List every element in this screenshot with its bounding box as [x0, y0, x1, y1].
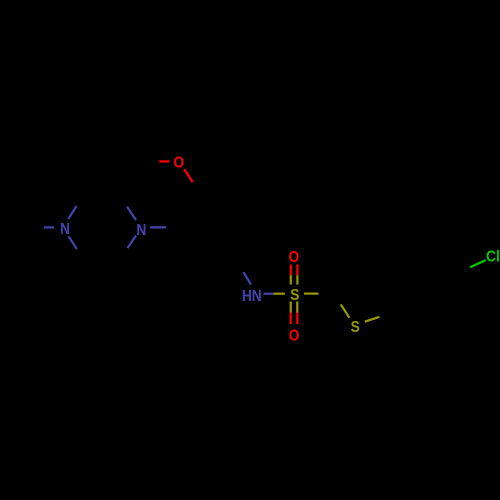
svg-text:O: O	[289, 326, 300, 344]
double bond S=O upper, left line (O half)	[290, 264, 292, 275]
svg-text:N: N	[136, 221, 146, 239]
bond NH-S (S half)	[273, 293, 285, 295]
bond N2-C3(pip) upper-left (N half)	[127, 207, 136, 221]
svg-text:Cl: Cl	[486, 248, 500, 266]
bond N1-C2(pip) upper (N half)	[68, 206, 76, 219]
svg-text:O: O	[173, 154, 184, 172]
double bond S=O upper, right line (O half)	[296, 264, 298, 275]
bond C(aryl)-NH (N half)	[244, 272, 251, 284]
bond S(sulfonyl)-C2(thiophene) (S half)	[304, 293, 319, 295]
bond N1-C6(pip) lower (N half)	[69, 236, 77, 249]
bond NH-S (N half)	[264, 293, 274, 295]
bond N1-CH3 (N half)	[44, 226, 54, 228]
double bond S=O lower, right line (O half)	[296, 313, 298, 325]
bond S1(thiophene)-C7a (S half)	[365, 317, 380, 322]
bond N2-C5(pip) lower-left (N half)	[128, 236, 137, 249]
bond O-C(aryl) (O half)	[184, 169, 193, 182]
double bond S=O upper, left line (S half)	[290, 275, 292, 284]
bond N2-C(aryl) (N half)	[150, 226, 166, 228]
double bond S=O lower, left line (S half)	[290, 302, 292, 313]
svg-text:HN: HN	[242, 287, 262, 305]
svg-text:S: S	[290, 286, 299, 304]
svg-text:O: O	[289, 248, 300, 266]
double bond S=O lower, left line (O half)	[290, 313, 292, 325]
bond S1(thiophene)-C2 (S half)	[341, 304, 350, 318]
double bond S=O upper, right line (S half)	[296, 275, 298, 284]
svg-text:N: N	[60, 220, 70, 238]
bond O-CH3 (methoxy, O half)	[159, 160, 169, 162]
double bond S=O lower, right line (S half)	[296, 302, 298, 313]
svg-text:S: S	[351, 318, 360, 336]
bond Cl-C5 (Cl half)	[470, 260, 486, 267]
